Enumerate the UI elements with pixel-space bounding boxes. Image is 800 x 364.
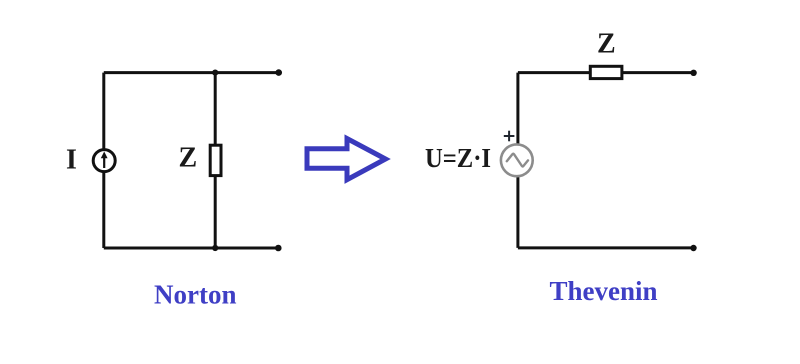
svg-text:Norton: Norton <box>154 280 237 310</box>
svg-text:I: I <box>66 145 77 176</box>
svg-text:Z: Z <box>179 143 198 174</box>
svg-text:Z: Z <box>597 28 616 59</box>
svg-text:U=Z·I: U=Z·I <box>425 143 491 173</box>
svg-text:Thevenin: Thevenin <box>550 276 658 306</box>
